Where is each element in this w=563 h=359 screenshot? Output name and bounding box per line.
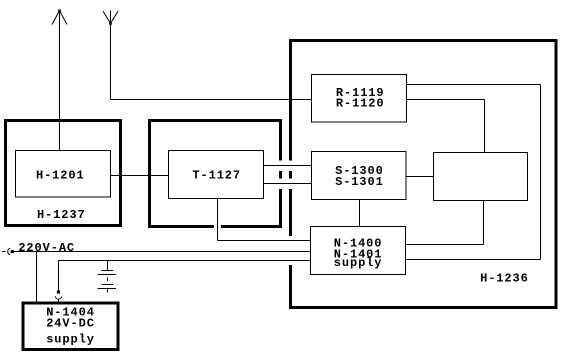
wire ANT2 to R-1119 <box>111 99 312 101</box>
antenna ANT1 arrowhead right arm <box>60 11 68 25</box>
box T-1127 inner <box>169 151 264 199</box>
battery GB1 cell1 short plate <box>102 270 114 272</box>
antenna ANT1 (transmit) mast <box>59 11 61 151</box>
box R-1119/R-1120 <box>312 75 407 123</box>
gap in H-1236 left border at wire crossings <box>289 161 294 172</box>
wire T-1127 to S-1300 lower <box>264 183 312 185</box>
node 220V-AC plug stub <box>2 251 6 253</box>
battery GB1 top lead <box>107 261 109 271</box>
box H-1236 <box>291 41 557 308</box>
battery GB1 cell2 long plate <box>98 288 117 290</box>
battery GB1 bottom stub <box>107 289 109 293</box>
wire H-1201 to T-1127 <box>111 175 169 177</box>
box H-1201 <box>16 151 111 198</box>
node 220V-AC plug arrowhead <box>11 250 14 253</box>
wire S-1300 to mixer <box>406 176 434 178</box>
wire 220V-AC feed <box>14 251 311 253</box>
svg-text:S-1301: S-1301 <box>335 175 384 189</box>
wire S-1300 bottom to N-1400 <box>359 200 361 227</box>
node 24V plug tick into N-1404 <box>58 299 60 301</box>
svg-text:supply: supply <box>334 256 383 270</box>
wire 220V-AC drop to N-1404 <box>36 252 38 304</box>
svg-text:R-1120: R-1120 <box>336 97 385 111</box>
svg-text:220V-AC: 220V-AC <box>18 241 75 255</box>
wire mixer to N-1400 right <box>406 244 484 246</box>
wire 24V feed to N-1400 <box>59 260 311 262</box>
gap in T-1127 outer box right border at wire crossings <box>279 161 284 172</box>
box T-1127 outer <box>150 121 281 227</box>
wire 24V drop to N-1404 <box>58 261 60 291</box>
box S-1300/S-1301 <box>312 152 407 200</box>
wire T-1127 bottom to N-1400 horizontal <box>218 240 311 242</box>
svg-text:H-1236: H-1236 <box>480 272 529 286</box>
svg-text:H-1201: H-1201 <box>36 168 85 182</box>
battery GB1 cell2 short plate <box>102 284 114 286</box>
wire R-1119 right upper horizontal <box>407 84 541 86</box>
antenna ANT2 right arm <box>111 11 119 24</box>
wire T-1127 to S-1300 upper <box>264 165 312 167</box>
battery GB1 cell1 long plate <box>98 274 117 276</box>
box mixer (unlabeled) <box>434 153 528 201</box>
wire R-1119 right upper vertical <box>540 85 542 260</box>
box N-1404 <box>23 303 118 350</box>
box N-1400/N-1401 supply <box>311 227 406 275</box>
node 220V-AC plug socket arc <box>8 248 11 255</box>
svg-text:H-1237: H-1237 <box>37 208 86 222</box>
wire mixer bottom vertical <box>483 201 485 245</box>
battery GB1 inter-cell link <box>107 278 109 282</box>
wire T-1127 bottom to N-1400 vertical <box>217 199 219 241</box>
node 24V plug socket arc <box>55 296 62 299</box>
antenna ANT2 junction dot <box>109 22 112 25</box>
wire R-1119 to mixer top vertical <box>484 100 486 153</box>
gap in T-1127 outer box bottom border at wire crossing <box>214 225 221 230</box>
box H-1237 <box>6 121 121 226</box>
wire R-1119 right lower horizontal <box>407 99 485 101</box>
svg-text:T-1127: T-1127 <box>192 168 241 182</box>
svg-text:24V-DC: 24V-DC <box>46 317 95 331</box>
wire R-1119 loop to N-1400 right <box>406 259 541 261</box>
antenna ANT2 (receive) mast <box>110 11 112 100</box>
antenna ANT1 arrowhead left arm <box>52 11 60 25</box>
antenna ANT2 left arm <box>103 11 111 24</box>
node 24V plug arrowhead <box>57 290 60 293</box>
svg-text:supply: supply <box>46 333 95 347</box>
antenna ANT1 tip dot <box>58 10 61 13</box>
